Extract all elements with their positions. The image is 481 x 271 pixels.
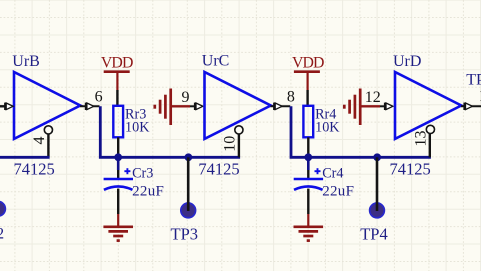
- ground (rotated, at UrC input): [155, 89, 171, 126]
- wire pin 6 to node TP3: [100, 106, 240, 157]
- wire node to Cr4: [307, 157, 310, 170]
- power port VDD (stage 2) stem: [307, 72, 309, 90]
- test point TP3 pin: [187, 157, 190, 211]
- ground (below Cr4): [294, 227, 324, 241]
- UrD input pin 12 line: [380, 105, 385, 107]
- wire node to Cr3: [117, 157, 120, 170]
- Cr3 top pin: [117, 170, 119, 178]
- ground stem to pin 12: [361, 105, 380, 107]
- Cr4 top pin: [307, 170, 309, 178]
- buffer UrC (74125) triangle: [205, 72, 271, 139]
- resistor Rr4 body: [303, 106, 313, 138]
- wire pin 8 to node TP4: [291, 106, 431, 157]
- svg-text:UrC: UrC: [202, 53, 230, 70]
- svg-text:TP3: TP3: [171, 224, 199, 243]
- UrD input pin arrow: [384, 103, 393, 110]
- UrC input pin 9 line: [190, 105, 195, 107]
- junction node Rr3/Cr3: [114, 153, 122, 161]
- ground (rotated, at UrD input): [344, 89, 360, 126]
- test point TP3 pad: [181, 203, 196, 218]
- buffer UrD (74125) triangle: [395, 72, 461, 139]
- capacitor Cr4 positive plate: [294, 178, 323, 181]
- pin 13 line: [429, 134, 431, 157]
- power port VDD (stage 1) bar: [104, 70, 130, 73]
- svg-text:12: 12: [365, 89, 381, 106]
- svg-text:10: 10: [222, 136, 239, 152]
- junction node TP3: [185, 153, 193, 161]
- svg-text:TP2: TP2: [0, 225, 4, 242]
- svg-text:UrB: UrB: [12, 53, 40, 70]
- test point TP4 pad: [370, 203, 385, 218]
- svg-text:8: 8: [287, 89, 295, 106]
- UrB output pin 6 line: [80, 105, 100, 107]
- svg-text:22uF: 22uF: [322, 183, 354, 199]
- Cr3 bottom pin: [117, 189, 119, 214]
- svg-text:10K: 10K: [125, 119, 150, 135]
- wire (UrB input, from left edge): [0, 105, 5, 107]
- UrD enable bubble (pin 13): [426, 125, 434, 133]
- UrB input pin 5 arrow: [4, 103, 13, 110]
- svg-text:VDD: VDD: [101, 55, 133, 72]
- UrC output pin 8 line: [271, 105, 291, 107]
- svg-text:74125: 74125: [390, 159, 431, 178]
- capacitor Cr3 negative plate (arc): [104, 186, 133, 189]
- pin 4 line: [47, 134, 49, 157]
- test point TP4 pin: [376, 157, 379, 211]
- svg-text:UrD: UrD: [393, 53, 421, 70]
- UrB output pin arrow: [85, 103, 94, 110]
- svg-text:6: 6: [95, 89, 103, 106]
- power port VDD (stage 1) stem: [116, 72, 118, 90]
- Rr3 top pin wire: [116, 90, 118, 105]
- svg-text:TP4: TP4: [360, 224, 388, 243]
- power port VDD (stage 2) bar: [294, 70, 320, 73]
- svg-text:VDD: VDD: [292, 55, 324, 72]
- test point TP2 pad (partial, left edge): [0, 201, 5, 216]
- UrC input pin arrow: [194, 103, 203, 110]
- pin 10 line: [238, 134, 240, 157]
- UrD output pin arrow: [463, 103, 472, 110]
- Cr4 plus sign: [315, 168, 321, 174]
- svg-text:74125: 74125: [14, 159, 55, 178]
- UrC output pin arrow: [273, 103, 282, 110]
- Cr3 plus sign: [124, 168, 130, 174]
- svg-text:22uF: 22uF: [132, 183, 164, 199]
- ground (below Cr3): [103, 227, 133, 241]
- svg-text:9: 9: [182, 89, 190, 106]
- svg-text:Cr4: Cr4: [322, 166, 343, 182]
- UrB enable bubble (pin 4): [44, 126, 52, 134]
- buffer UrB (74125) triangle: [14, 72, 80, 139]
- junction node TP4: [373, 153, 381, 161]
- resistor Rr3 body: [113, 106, 123, 138]
- UrC enable bubble (pin 10): [235, 126, 243, 134]
- svg-text:10K: 10K: [315, 119, 340, 135]
- Cr4 bottom pin: [307, 189, 309, 214]
- ground stem (below Cr3): [117, 214, 119, 227]
- Rr4 bottom pin wire: [307, 137, 309, 157]
- svg-text:4: 4: [31, 137, 48, 145]
- Rr4 top pin wire: [306, 90, 308, 105]
- svg-text:TP5: TP5: [466, 72, 481, 89]
- wire (enable net to pin 4, from left edge): [0, 156, 50, 159]
- capacitor Cr3 positive plate: [104, 178, 133, 181]
- svg-text:13: 13: [412, 131, 429, 147]
- capacitor Cr4 negative plate (arc): [294, 186, 323, 189]
- UrD output pin 11 line: [461, 105, 481, 107]
- ground stem (below Cr4): [307, 214, 309, 227]
- ground stem to pin 9: [172, 105, 190, 107]
- svg-text:Cr3: Cr3: [132, 166, 153, 182]
- svg-text:74125: 74125: [198, 159, 239, 178]
- Rr3 bottom pin wire: [117, 137, 119, 157]
- junction node Rr4/Cr4: [304, 153, 312, 161]
